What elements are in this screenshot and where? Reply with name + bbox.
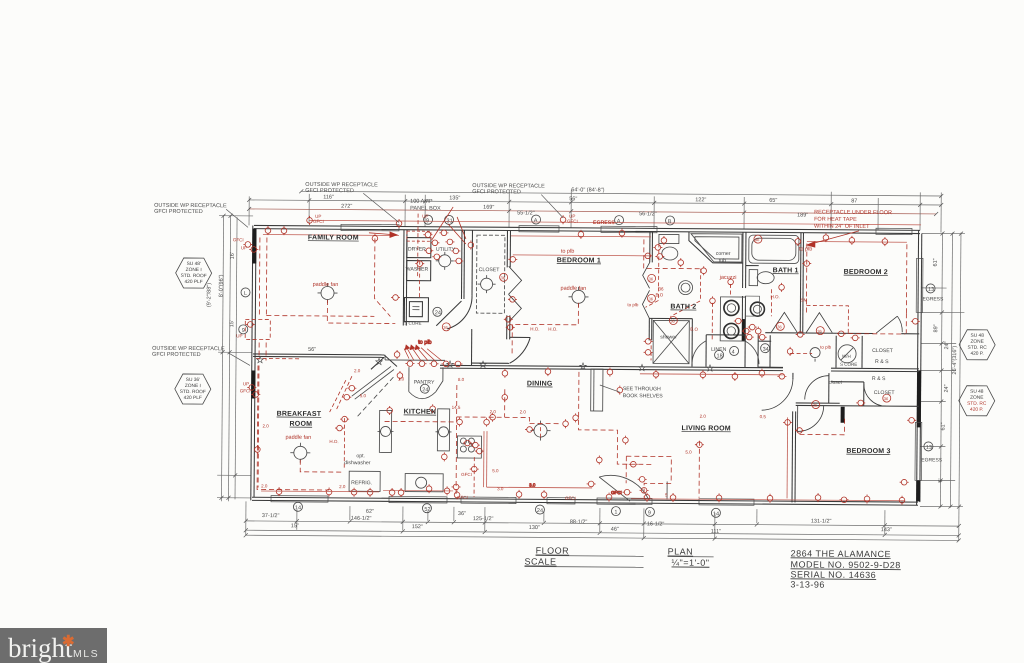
svg-text:STD. RC: STD. RC [968,345,988,351]
svg-text:36: 36 [884,396,889,401]
svg-text:111": 111" [711,529,721,535]
closet door chevrons [509,266,522,294]
corner tub outline [691,234,742,262]
bedroom2 loop [905,244,908,313]
svg-text:UTILITY: UTILITY [436,247,456,253]
svg-text:GFCI: GFCI [565,496,576,501]
hexagon flags [175,258,996,416]
top wall receptacles [307,216,313,225]
left wall circled [239,288,250,334]
utility door diagonal [436,301,461,326]
svg-text:6': 6' [938,478,944,482]
right wall circled 13s [924,284,935,451]
bedroom1 bottom wall [510,336,530,338]
svg-text:EGRESS: EGRESS [593,220,615,226]
svg-text:15': 15' [229,320,235,327]
svg-text:ZONE: ZONE [970,339,983,345]
bedroom3 closet row [796,404,919,407]
bath1 toilet [757,272,774,284]
svg-text:8.0: 8.0 [458,377,465,382]
svg-text:131-1/2": 131-1/2" [811,519,832,525]
svg-text:2.0: 2.0 [339,484,346,489]
svg-text:(9'-2"/88"): (9'-2"/88") [206,283,212,307]
svg-text:GFCI PROTECTED: GFCI PROTECTED [154,209,203,215]
text layer [150,181,996,591]
svg-text:3-13-96: 3-13-96 [790,579,825,589]
svg-text:BEDROOM 3: BEDROOM 3 [846,448,890,455]
svg-text:272": 272" [341,204,352,210]
svg-text:SU 48': SU 48' [187,261,201,267]
marriage line left portion [253,353,384,356]
svg-text:9: 9 [648,510,651,516]
svg-text:to plb: to plb [799,246,813,252]
svg-text:paddle fan: paddle fan [313,282,339,288]
svg-text:CLOSET: CLOSET [874,390,896,396]
svg-text:BATH 2: BATH 2 [670,304,696,311]
svg-text:WASHER: WASHER [406,267,429,273]
top dimension line overall [301,191,941,196]
svg-text:420 PLF: 420 PLF [185,279,203,285]
svg-text:36: 36 [659,286,665,291]
density boost: perimeter red runs [256,357,300,359]
svg-text:DINING: DINING [527,380,553,387]
svg-text:A: A [617,219,621,225]
bedroom2 bottom entries [802,261,811,267]
bath1 interior: wall below tub [746,265,759,267]
svg-text:FAMILY ROOM: FAMILY ROOM [308,234,359,241]
svg-text:KITCHEN: KITCHEN [404,409,437,416]
bath1 wiring [779,283,785,292]
svg-text:34: 34 [763,347,769,353]
svg-text:paddle fan: paddle fan [561,286,587,292]
bath2 vanity double sinks [720,297,745,341]
svg-text:16': 16' [230,252,236,259]
svg-text:UP: UP [241,245,247,250]
svg-text:122": 122" [695,197,706,203]
svg-text:8'-0"(96"): 8'-0"(96") [218,274,224,297]
svg-text:36: 36 [755,237,760,242]
svg-text:0.5: 0.5 [760,414,767,419]
svg-text:PANTRY: PANTRY [414,380,435,386]
svg-text:14: 14 [295,505,301,511]
svg-text:89": 89" [933,324,939,332]
svg-text:36: 36 [670,319,675,324]
svg-text:24": 24" [944,384,950,392]
svg-text:4: 4 [732,349,735,355]
svg-text:18: 18 [717,353,723,359]
svg-text:9: 9 [426,218,429,224]
dryer closet [407,238,431,258]
bath1 sink [750,302,764,316]
svg-text:62": 62" [366,509,374,515]
marriage line right portion double [440,365,783,368]
right side vertical dim lines [940,233,942,508]
living room network [631,499,905,501]
svg-text:EGRESS: EGRESS [922,296,944,302]
svg-text:H.O.: H.O. [530,326,539,331]
svg-text:SU 36': SU 36' [186,377,200,383]
red line below top wall family room [263,234,399,237]
svg-text:100 AMP: 100 AMP [410,199,433,205]
svg-text:2.0: 2.0 [520,409,527,414]
windows on bottom wall [271,496,754,506]
svg-text:paddle fan: paddle fan [285,435,311,441]
left side vertical dim lines [221,215,223,501]
svg-text:13: 13 [928,287,934,293]
svg-text:52: 52 [424,507,430,513]
svg-text:LIVING ROOM: LIVING ROOM [682,425,731,432]
svg-text:B.O: B.O [655,292,663,297]
svg-text:jacuzzi: jacuzzi [719,275,737,281]
watermark bright MLS [0,628,107,663]
bottom extension verticals [245,501,247,535]
svg-text:36: 36 [649,276,654,281]
svg-text:GFCI PROTECTED: GFCI PROTECTED [472,189,521,195]
exterior bottom wall double [252,497,918,502]
shear wall thick bars [253,228,921,501]
svg-text:corner: corner [716,251,731,257]
svg-text:64'-0" (84'-8"): 64'-0" (84'-8") [571,187,604,193]
svg-text:16-1/2": 16-1/2" [647,521,665,527]
svg-text:GFCI: GFCI [461,472,472,477]
svg-text:55-1/2": 55-1/2" [517,210,535,216]
svg-text:SM: SM [800,297,807,302]
svg-text:EGRESS: EGRESS [921,457,943,463]
utility block left wall (family room right) [402,230,405,326]
gray circled numbers below bottom wall [293,502,720,517]
title block [524,545,901,590]
svg-text:BEDROOM 1: BEDROOM 1 [557,257,601,264]
svg-text:B: B [668,219,672,225]
svg-text:ZONE: ZONE [970,395,983,401]
svg-text:ROOM: ROOM [290,421,313,428]
kitchen island [437,409,449,451]
svg-text:CLOSET: CLOSET [872,348,894,354]
svg-text:SU 48: SU 48 [971,333,985,339]
svg-text:36: 36 [777,324,782,329]
water heater circle [838,345,856,363]
washer closet [407,261,431,281]
svg-text:tub: tub [719,258,726,264]
tick marks top [247,189,943,216]
svg-text:24: 24 [537,508,543,514]
bedroom2 top interior line [807,241,907,244]
svg-text:A: A [534,218,538,224]
svg-text:36": 36" [458,511,466,517]
svg-text:UP: UP [243,381,249,386]
svg-text:56-1/2": 56-1/2" [639,211,657,217]
bottom dimension lines [246,521,959,526]
family room left wall run [265,238,268,316]
svg-text:SU 48: SU 48 [970,389,984,395]
family room fan drop [327,300,395,323]
windows on right wall [915,258,923,480]
top-left corner cluster [243,242,252,248]
walls layer [251,224,923,507]
svg-text:FLOOR: FLOOR [536,546,570,556]
svg-text:shower: shower [660,334,677,340]
dining door lower right [599,477,630,501]
svg-text:H.O.: H.O. [770,294,779,299]
svg-text:36: 36 [648,296,653,301]
svg-text:37-1/2": 37-1/2" [262,513,280,519]
hall/closet wall [471,230,473,295]
svg-text:STD. RC: STD. RC [967,401,987,407]
svg-text:L: L [244,291,247,297]
svg-text:REFRIG.: REFRIG. [351,480,372,486]
svg-text:146-1/2": 146-1/2" [351,516,372,522]
svg-text:152": 152" [412,524,423,530]
closet right wall / bedroom1 left [506,230,508,267]
svg-text:56": 56" [308,347,316,353]
svg-text:5: 5 [665,492,668,497]
svg-text:61": 61" [933,258,939,266]
svg-text:closet: closet [829,380,843,386]
svg-text:BREAKFAST: BREAKFAST [277,411,322,418]
svg-text:15": 15" [291,523,299,529]
svg-text:PANEL BOX: PANEL BOX [410,206,441,212]
red texts [231,205,892,503]
closet shelving dashed (hall closet) [476,235,505,313]
svg-text:GFCI: GFCI [240,388,251,393]
svg-text:GFCI: GFCI [567,219,578,224]
svg-text:169": 169" [483,205,494,211]
svg-text:420 P.: 420 P. [970,351,983,357]
svg-text:S CORE: S CORE [404,321,421,326]
kitchen bottom [383,489,453,492]
bath1 / bedroom2 wall [799,232,802,332]
svg-text:H.O.: H.O. [548,327,557,332]
svg-text:PLAN: PLAN [668,547,694,557]
svg-text:¼"=1'-0": ¼"=1'-0" [672,558,710,568]
svg-text:2.0: 2.0 [263,424,270,429]
red line above top wall [309,220,921,224]
svg-text:5.0: 5.0 [492,468,499,473]
shower with X [653,320,689,363]
svg-text:SCALE: SCALE [525,556,557,566]
bedroom1 door chevrons to bath2 [643,262,650,288]
svg-text:GFCI: GFCI [233,237,244,242]
ceiling fans gray circles [290,251,821,467]
top dimension line 1 [249,200,941,205]
middle hall row walls (shower/linen/wh) [649,317,692,319]
circled 36 reds [442,233,892,409]
svg-text:GFCI: GFCI [611,490,622,495]
svg-text:GFCI: GFCI [457,495,468,500]
living room / bedroom3 wall [792,373,794,377]
svg-text:to plb: to plb [418,340,432,346]
svg-text:opt.: opt. [356,453,365,459]
top extension verticals [248,196,250,225]
svg-text:GFCI PROTECTED: GFCI PROTECTED [152,352,201,358]
svg-text:65": 65" [769,198,777,204]
svg-text:125-1/2": 125-1/2" [473,516,494,522]
svg-text:14: 14 [713,511,719,517]
pantry / kitchen angled walls [384,355,397,367]
svg-text:CLOSET: CLOSET [479,267,501,273]
living room entry door bottom [666,481,668,499]
svg-text:143": 143" [881,527,892,533]
svg-text:2.0: 2.0 [490,409,497,414]
svg-text:26'-4"(316"): 26'-4"(316") [952,346,958,375]
svg-text:3.0: 3.0 [497,486,504,491]
svg-text:420 P.: 420 P. [970,407,983,413]
svg-text:SEE THROUGH: SEE THROUGH [623,386,661,392]
svg-text:BEDROOM 2: BEDROOM 2 [844,269,888,276]
svg-text:DRYER: DRYER [408,247,426,253]
svg-text:dishwasher: dishwasher [344,460,371,466]
svg-text:5.0: 5.0 [685,450,692,455]
hall door arc [447,295,472,329]
bookshelf (see through) [591,369,603,411]
svg-text:1.0: 1.0 [398,377,405,382]
bedroom1 right wall [649,231,651,262]
svg-text:2.0: 2.0 [354,368,361,373]
svg-text:5.0: 5.0 [360,393,367,398]
exterior right wall double [917,230,919,505]
svg-text:to plb: to plb [561,249,575,255]
svg-text:14.5: 14.5 [452,405,461,410]
svg-text:24: 24 [422,387,428,393]
kitchen left counter [379,410,391,452]
svg-text:GFCI: GFCI [313,219,324,224]
kitchen diagonal walls [352,366,391,396]
svg-text:87: 87 [851,198,857,204]
refrigerator [349,471,380,491]
svg-text:116": 116" [323,194,334,200]
svg-text:24: 24 [435,310,441,316]
linen door arcs [692,341,706,364]
kitchen range [457,436,481,458]
bath1 tub [749,235,799,263]
svg-text:2.0: 2.0 [700,414,707,419]
bedroom1 fan drop [512,302,578,355]
utility red extras [418,261,420,299]
fixtures layer [237,213,935,519]
svg-text:BATH 1: BATH 1 [773,267,799,274]
svg-text:46": 46" [611,527,619,533]
svg-text:STD. ROOF: STD. ROOF [181,273,207,279]
bath1/bath2 separator wall [742,232,744,288]
svg-text:189": 189" [797,212,808,218]
svg-text:135": 135" [449,195,460,201]
small walls near living room right [758,366,783,368]
closet door arcs bedroom3 [864,384,886,406]
furnace symbol [412,306,419,308]
svg-text:R & S: R & S [875,359,889,365]
bedroom2 entry chevron doors [771,312,797,332]
svg-text:RECEPTACLE UNDER FLOOR: RECEPTACLE UNDER FLOOR [814,210,892,217]
exterior left wall double [251,225,253,500]
pantry walls [408,367,410,391]
bedroom1/closet lower walls to marriage line [472,362,509,364]
svg-text:88-1/2": 88-1/2" [570,519,588,525]
bath2 wiring [658,243,660,287]
bedroom1 interior line [513,255,651,256]
svg-text:9: 9 [242,328,245,334]
bath2 sink circle [679,281,693,295]
svg-text:GFCI PROTECTED: GFCI PROTECTED [305,188,354,194]
svg-text:420 PLF: 420 PLF [184,395,202,401]
svg-text:UP: UP [236,333,242,338]
marriage line wiring / arrows fan [404,347,442,361]
svg-text:R & S: R & S [872,376,886,382]
exterior top wall double [254,225,920,230]
svg-text:B.O: B.O [690,327,698,332]
breakfast room [257,365,330,490]
bath2 toilet [662,247,678,260]
gray circled letters above top wall [424,214,675,226]
svg-text:24": 24" [944,341,950,349]
dining loop [530,422,560,424]
svg-text:MLS: MLS [73,648,99,660]
svg-text:130": 130" [529,525,540,531]
svg-text:SERIAL NO. 14636: SERIAL NO. 14636 [790,569,876,580]
svg-text:FOR HEAT TAPE: FOR HEAT TAPE [814,217,857,223]
svg-text:ZONE I: ZONE I [186,267,202,273]
svg-text:1: 1 [614,510,617,516]
36 numbers inside red circles [443,235,890,408]
svg-text:H.O.: H.O. [329,439,338,444]
svg-text:61": 61" [941,422,947,430]
svg-text:13: 13 [926,445,932,451]
svg-text:STD. ROOF: STD. ROOF [180,389,206,395]
svg-text:LINEN: LINEN [711,347,727,353]
bedroom3 entry door [798,405,824,431]
svg-text:to plb: to plb [627,302,639,307]
svg-text:BOOK SHELVES: BOOK SHELVES [623,393,664,399]
svg-text:WITHIN 24" OF INLET: WITHIN 24" OF INLET [814,224,870,230]
marriage line stars [257,356,714,371]
svg-text:3.0: 3.0 [529,482,536,487]
bath2 corner tub walls [689,232,743,263]
svg-text:2.0: 2.0 [261,484,268,489]
svg-text:31: 31 [447,218,453,224]
kitchen sink counter bottom [405,474,443,492]
furnace closet [404,298,428,322]
svg-text:56": 56" [569,196,577,202]
dimension lines layer [217,187,966,542]
panel box cluster [417,214,419,279]
svg-text:W/H: W/H [842,354,851,359]
kitchen red network [337,376,352,409]
svg-text:2864 THE ALAMANCE: 2864 THE ALAMANCE [791,548,891,559]
bedroom3 interior [839,497,848,503]
svg-text:36: 36 [501,275,506,280]
svg-text:to plb: to plb [820,345,832,350]
utility right wall [460,230,463,299]
top dimension line 2 [249,209,936,214]
windows on top wall [341,224,912,234]
svg-text:S CORE: S CORE [840,362,857,367]
family room right drop [374,238,391,316]
svg-text:ZONE I: ZONE I [185,383,201,389]
middle hall row [650,345,652,360]
